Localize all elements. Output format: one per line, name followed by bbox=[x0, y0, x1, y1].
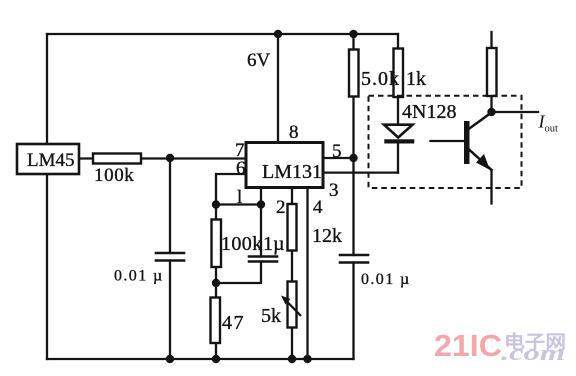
svg-text:5.0k: 5.0k bbox=[361, 68, 400, 90]
svg-text:l: l bbox=[237, 187, 242, 208]
svg-text:21IC: 21IC bbox=[434, 328, 502, 363]
svg-text:LM45: LM45 bbox=[27, 150, 75, 171]
svg-text:0.01 µ: 0.01 µ bbox=[361, 271, 411, 288]
svg-text:.com: .com bbox=[501, 340, 565, 365]
svg-text:LM131: LM131 bbox=[262, 161, 322, 183]
svg-text:6V: 6V bbox=[247, 50, 271, 71]
svg-text:6: 6 bbox=[236, 158, 246, 179]
svg-text:12k: 12k bbox=[312, 225, 342, 247]
svg-text:47: 47 bbox=[222, 312, 245, 334]
svg-text:1k: 1k bbox=[406, 68, 426, 90]
svg-text:1µ: 1µ bbox=[263, 233, 285, 255]
svg-text:out: out bbox=[545, 124, 559, 135]
svg-text:2: 2 bbox=[276, 197, 286, 218]
svg-text:3: 3 bbox=[329, 180, 339, 201]
svg-text:100k: 100k bbox=[94, 165, 134, 186]
svg-text:100k: 100k bbox=[221, 233, 263, 255]
svg-text:5k: 5k bbox=[261, 305, 281, 327]
svg-text:0.01 µ: 0.01 µ bbox=[114, 268, 164, 285]
svg-text:5: 5 bbox=[332, 141, 342, 162]
svg-text:8: 8 bbox=[289, 122, 299, 143]
svg-text:4: 4 bbox=[313, 197, 323, 218]
svg-text:4N128: 4N128 bbox=[402, 101, 456, 123]
